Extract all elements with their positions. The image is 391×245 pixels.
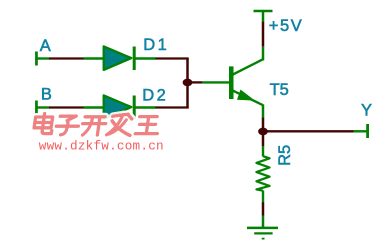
wire emitter down to node	[262, 118, 265, 131]
ground	[247, 215, 278, 238]
wire collector to +5V	[262, 22, 265, 47]
junction dot at bus	[183, 79, 193, 87]
diode D1	[84, 46, 156, 70]
svg-text:Y: Y	[361, 102, 372, 120]
wire B to D2 anode	[49, 106, 84, 108]
wire bus to base	[188, 81, 203, 83]
svg-text:B: B	[41, 86, 52, 104]
wire A to D1 anode	[49, 57, 84, 59]
transistor T5	[202, 47, 263, 118]
svg-text:D2: D2	[142, 86, 168, 104]
port A terminal	[35, 52, 49, 66]
svg-text:www.dzkfw.com.cn: www.dzkfw.com.cn	[39, 139, 164, 154]
port Y terminal	[354, 124, 370, 138]
wire D1 cathode to bus	[156, 57, 189, 59]
svg-text:+5V: +5V	[269, 17, 304, 35]
svg-text:A: A	[40, 37, 51, 55]
wire node to Y	[263, 130, 354, 132]
resistor R5	[256, 146, 269, 203]
svg-text:D1: D1	[143, 36, 169, 54]
svg-text:R5: R5	[276, 145, 294, 166]
wire D2 cathode to bus	[156, 106, 189, 108]
diode D2	[84, 95, 156, 119]
wire vertical bus	[186, 58, 189, 109]
wire R5 to ground	[262, 202, 265, 215]
junction dot emitter node	[258, 128, 268, 136]
svg-text:T5: T5	[270, 81, 289, 99]
power +5V	[254, 11, 273, 22]
wire node to R5	[262, 131, 265, 146]
watermark logo glyphs white halo	[33, 114, 160, 136]
watermark logo glyphs 电子开发王	[33, 114, 160, 136]
port B terminal	[35, 101, 49, 115]
